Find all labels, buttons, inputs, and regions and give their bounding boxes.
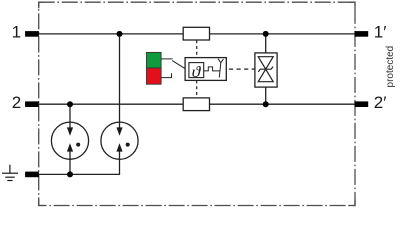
terminal 1' pad xyxy=(355,31,369,37)
svg-text:1: 1 xyxy=(12,23,21,42)
wire line 1 right xyxy=(210,33,355,35)
theta symbol xyxy=(192,66,201,77)
gas discharge tube GDT1 xyxy=(51,122,88,159)
decoupling impedance box R1 in line 1 xyxy=(183,27,209,40)
status indicator red field xyxy=(147,68,162,84)
switch contact green xyxy=(161,58,172,60)
dashed link monitor to R2 xyxy=(196,80,198,97)
enclosure border corner ticks xyxy=(39,2,355,205)
junction dot line2/GDT1 xyxy=(67,101,73,107)
svg-text:2: 2 xyxy=(12,93,21,112)
terminal 2' pad xyxy=(355,101,369,107)
wire GDT1 bottom to ground bus xyxy=(69,159,71,174)
terminal 2 pad xyxy=(25,101,39,107)
ground terminal pad xyxy=(25,172,39,178)
svg-text:2′: 2′ xyxy=(374,93,387,112)
switch arm xyxy=(172,61,185,69)
dashed link R1 to monitor xyxy=(196,40,198,57)
wire GDT2 top drop from line 1 xyxy=(119,34,121,122)
svg-text:protected: protected xyxy=(385,46,396,88)
disconnect arrow symbol xyxy=(218,59,223,78)
junction dot line1/TVS xyxy=(263,31,269,37)
wire TVS branch from line 1 to line 2 xyxy=(265,34,267,104)
wire GDT1 top drop from line 2 xyxy=(69,104,71,122)
status indicator green field xyxy=(147,52,162,68)
gas discharge tube GDT2 xyxy=(101,122,138,159)
terminal 1 pad xyxy=(25,31,39,37)
wire line 1 left xyxy=(39,33,183,35)
svg-text:1′: 1′ xyxy=(374,23,387,42)
dashed link monitor to TVS xyxy=(227,68,255,70)
pulse waveform symbol xyxy=(204,67,220,71)
TVS bidirectional diode symbol xyxy=(258,57,273,82)
junction dot line2/TVS xyxy=(263,101,269,107)
enclosure dash-dot border xyxy=(39,2,355,205)
thermal monitor box U1 xyxy=(185,58,226,81)
TVS suppressor box xyxy=(255,53,277,87)
wire ground bus xyxy=(39,159,120,174)
wire line 2 left xyxy=(39,103,183,105)
decoupling impedance box R2 in line 2 xyxy=(183,98,209,111)
switch contact red xyxy=(161,73,171,77)
theta sensor inner box xyxy=(189,63,204,78)
wire line 2 right xyxy=(210,103,355,105)
junction dot line1/GDT2 xyxy=(117,31,123,37)
junction dot ground bus/GDT1 xyxy=(67,171,73,177)
ground symbol xyxy=(2,165,18,181)
